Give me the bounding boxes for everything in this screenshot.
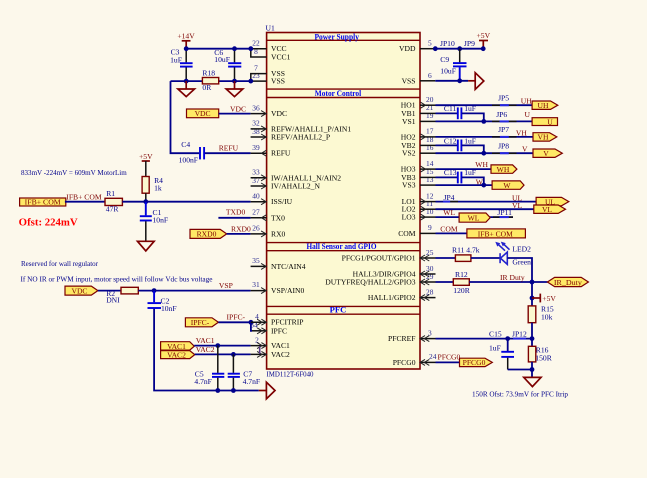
svg-text:TXD0: TXD0 [226,208,246,217]
svg-text:RXD0: RXD0 [197,230,217,239]
port WH flag [491,165,517,174]
port IFB+ COM rect right [467,229,526,238]
pin 39 stub [251,150,267,156]
pin 5 stub [420,48,435,50]
junction dot IR rail [530,280,535,285]
svg-text:Motor Control: Motor Control [315,88,362,98]
svg-text:U: U [547,117,553,126]
svg-text:39: 39 [252,143,260,152]
wire TXD0 to pin 27 [218,217,250,219]
svg-text:UH: UH [521,97,532,106]
svg-text:25: 25 [426,248,434,257]
wire VS3 row [436,184,493,186]
ground under C6 [226,81,243,97]
svg-text:26: 26 [252,224,260,233]
wire C4 to pin 39 REFU [205,152,251,154]
power +5V at R15 [530,294,557,303]
capacitor C3 [170,48,193,81]
pin 1 stub [251,351,267,357]
svg-text:1uF: 1uF [464,168,476,177]
op-amp U1 IMD112T-6F040 controller body [267,31,420,369]
wire COM row [436,232,467,234]
wire R1 to pin 40 [122,201,250,203]
wire VAC2 to pin 1 [195,353,251,355]
U1 right pin numbers [426,39,437,362]
wire R11 to LED2 [471,257,500,259]
capacitor C1 [140,202,168,242]
svg-text:W: W [503,181,511,190]
pin 3 stub [420,336,436,342]
net label IPFC- flag [185,318,218,327]
wire C11 to VS1 row [462,113,484,121]
svg-text:COM: COM [440,225,458,234]
junction dot VS1 [481,119,486,124]
svg-text:IR_Duty: IR_Duty [554,278,582,287]
svg-text:IPFC: IPFC [271,326,287,335]
junction dot VS2 [481,151,486,156]
svg-text:VH: VH [516,128,527,137]
svg-text:6: 6 [428,71,432,80]
svg-text:WL: WL [468,214,480,223]
pin 32 stub [251,126,267,132]
junction dot IPFC [249,320,254,325]
U1 left pin names [271,44,351,359]
wire HO2 row [436,136,534,138]
svg-text:833mV -224mV = 609mV MotorLim: 833mV -224mV = 609mV MotorLim [21,168,127,177]
svg-text:LO3: LO3 [402,213,416,222]
svg-text:TX0: TX0 [271,213,285,222]
pin 26 stub [251,231,267,237]
wire pin25 to R11 [436,257,456,259]
pin 35 stub NTC [251,263,267,269]
pin 34 stub [252,328,267,334]
wire VAC1 to pin 2 [194,345,250,347]
svg-text:R18: R18 [202,69,215,78]
svg-text:36: 36 [252,103,260,112]
svg-text:JP12: JP12 [512,330,527,339]
svg-text:V: V [522,145,528,154]
svg-text:C9: C9 [440,55,449,64]
LED LED2 [495,242,531,267]
svg-text:24: 24 [429,352,437,361]
wire R15 to pin3 row [531,323,533,347]
svg-text:VDC: VDC [195,109,211,118]
svg-text:23: 23 [252,71,260,80]
svg-text:35: 35 [252,256,260,265]
wire IFB to R1 [65,201,105,203]
svg-text:WL: WL [443,208,455,217]
pin 6 stub [420,80,435,82]
svg-text:JP4: JP4 [444,193,455,202]
resistor R2 [106,287,138,304]
svg-text:HALL1/GPIO2: HALL1/GPIO2 [368,293,416,302]
svg-text:JP11: JP11 [497,208,512,217]
capacitor C4 [179,140,205,165]
net label RXD0 flag [190,229,227,238]
pin 27 stub [251,215,267,221]
svg-text:JP6: JP6 [496,110,507,119]
junction dot VS3 [481,183,486,188]
pin 31 stub [251,288,267,294]
svg-text:VAC2: VAC2 [271,350,290,359]
svg-text:IR Duty: IR Duty [500,273,525,282]
resistor R11 [452,245,480,261]
svg-text:IMD112T-6F040: IMD112T-6F040 [267,369,314,378]
svg-text:DUTYFREQ/HALL2/GPIO3: DUTYFREQ/HALL2/GPIO3 [325,278,415,287]
svg-text:27: 27 [252,208,260,217]
svg-text:DNI: DNI [106,296,120,305]
svg-text:13: 13 [426,175,434,184]
pin 17 stub [420,134,436,140]
port PFCG0 flag [460,358,493,367]
port VH flag [533,133,557,142]
wire C2 down to bottom rail [154,309,259,391]
svg-text:UH: UH [538,101,549,110]
svg-text:VCC1: VCC1 [271,53,291,62]
svg-text:VAC2: VAC2 [167,351,186,360]
svg-text:10k: 10k [541,313,553,322]
svg-text:VH: VH [538,133,549,142]
wire VCC rail pin22 row [186,48,250,50]
junction dot R15 R16 node [530,336,535,341]
wire C13 to VS3 row [462,177,484,185]
wire VB3 to C13 [436,176,458,178]
svg-text:NTC/AIN4: NTC/AIN4 [271,262,306,271]
junction dot C15 top [505,336,510,341]
svg-text:IV/AHALL2_N: IV/AHALL2_N [271,182,320,191]
svg-text:40: 40 [252,191,260,200]
svg-text:R1: R1 [106,189,115,198]
port IR_Duty hexagon [547,277,588,286]
svg-text:1uF: 1uF [464,104,476,113]
wire R2 to pin 31 VSP [138,290,250,292]
pin link VAC1 VAC2 [259,346,261,353]
svg-text:10uF: 10uF [440,67,456,76]
svg-text:PFCREF: PFCREF [388,334,415,343]
svg-text:Hall Sensor and GPIO: Hall Sensor and GPIO [307,241,377,251]
svg-text:R11 4.7k: R11 4.7k [452,245,480,254]
svg-text:VSP/AIN0: VSP/AIN0 [271,286,305,295]
svg-text:VSS: VSS [402,77,416,86]
svg-text:VDC: VDC [271,109,287,118]
pin 14 stub [420,166,436,172]
svg-text:WH: WH [475,160,488,169]
svg-text:VDD: VDD [399,44,416,53]
capacitor C2 [148,291,177,313]
pin 29 stub [420,279,436,285]
pin 16 stub [420,152,436,154]
resistor R16 [528,346,552,363]
svg-text:+5V: +5V [542,294,556,303]
svg-text:JP10: JP10 [440,39,455,48]
directive triangle bottom rail [259,382,275,399]
svg-text:9: 9 [428,223,432,232]
pin 28 stub [420,295,436,301]
svg-text:10: 10 [426,207,434,216]
svg-text:0R: 0R [202,83,212,92]
pin 9 stub [420,232,436,234]
svg-text:150R Ofst: 73.9mV for PFC Itri: 150R Ofst: 73.9mV for PFC Itrip [472,389,568,398]
wire VSS rail pin23 row [171,80,251,82]
svg-text:1uF: 1uF [170,56,182,65]
wire VS1 row [436,120,533,122]
pin 25 stub [420,255,436,261]
svg-text:100nF: 100nF [179,155,198,164]
junction dots VCC rail [184,46,253,51]
junction node R1 R4 C1 [143,199,148,204]
wire VDC flag to R2 [98,290,121,292]
svg-text:29: 29 [426,272,434,281]
svg-text:VS2: VS2 [402,149,416,158]
resistor R15 [528,305,554,323]
svg-text:1uF: 1uF [489,343,501,352]
wire C15 bottom to ground node [508,369,532,371]
svg-text:Ofst: 224mV: Ofst: 224mV [19,217,78,228]
svg-text:VAC1: VAC1 [271,341,290,350]
pin 20 stub [420,102,436,108]
svg-text:U1: U1 [266,23,275,32]
power +14V [177,31,195,48]
pin 22 stub [251,48,267,50]
svg-text:IPFC-: IPFC- [191,318,210,327]
capacitor C6 [214,48,241,81]
svg-text:C12: C12 [444,137,457,146]
pin 13 stub [420,184,436,186]
wire VS2 row [436,152,534,154]
wire VB1 to C11 [436,112,458,114]
svg-text:REFU: REFU [219,143,239,152]
junction node VSP C2 [152,288,157,293]
svg-text:IFB+ COM: IFB+ COM [25,198,61,207]
svg-text:1uF: 1uF [464,137,476,146]
U1 right pin names [325,44,416,367]
svg-text:VL: VL [542,205,552,214]
pin 15 stub [420,176,436,178]
wire HO3 row [436,168,492,170]
net label VAC2 flag [161,351,195,360]
svg-text:4.7nF: 4.7nF [243,377,261,386]
wire VSS loop to C4 [171,81,200,153]
svg-text:R12: R12 [455,270,468,279]
jumper JP4 [443,193,458,202]
svg-text:PFCG1/PGOUT/GPIO1: PFCG1/PGOUT/GPIO1 [342,254,416,263]
svg-text:10uF: 10uF [214,55,230,64]
U1 left pin numbers [250,39,260,345]
pin 38 stub [251,134,267,140]
svg-text:120R: 120R [453,286,470,295]
svg-text:28: 28 [426,287,434,296]
pin 36 stub [251,111,267,117]
wire VDC to pin 36 [219,113,251,115]
svg-text:VS1: VS1 [402,117,416,126]
svg-text:RXD0: RXD0 [231,224,251,233]
ground under R16 [524,377,541,386]
junction dot C5 bottom [215,388,220,393]
resistor R18 [202,69,218,92]
resistor R4 [142,176,163,202]
capacitor C5 [194,346,224,391]
svg-text:+14V: +14V [177,31,195,40]
svg-text:IFB+ COM: IFB+ COM [478,229,513,238]
wire LO3 row [436,216,514,218]
wire IPFC branch down [251,322,252,331]
junction dot VAC1 C5 [215,343,220,348]
net label VAC1 flag [161,342,195,351]
wire IPFC- to pins 4 34 [218,321,251,323]
net label IFB+ COM rect left [20,198,66,207]
svg-text:W: W [476,177,484,186]
svg-text:C4: C4 [181,140,190,149]
pin 40 stub [251,199,267,205]
jumper JP6 [492,110,517,122]
svg-text:JP5: JP5 [498,93,509,102]
junction dot VAC2 C7 [231,352,236,357]
jumper JP5 [492,93,517,105]
resistor R12 [453,270,470,295]
svg-text:VL: VL [512,201,522,210]
svg-text:IFB+ COM: IFB+ COM [66,192,102,201]
pin 8 stub branch [251,49,267,57]
net label VDC rectangle [187,109,219,118]
svg-text:If NO IR or PWM input, motor s: If NO IR or PWM input, motor speed will … [21,274,214,283]
svg-text:VAC1: VAC1 [196,336,215,345]
svg-text:PFCG0: PFCG0 [393,358,416,367]
pin 33 stub [251,175,267,181]
svg-text:31: 31 [252,280,260,289]
jumper JP12 [512,330,527,339]
net label VDC flag [65,286,98,295]
pin 21 stub [420,112,436,114]
wire R12 to IR_Duty [469,281,547,283]
port WL flag [459,213,490,223]
pin 12 stub [420,199,436,205]
svg-text:10nF: 10nF [153,215,169,224]
junction dot ground node [530,367,535,372]
svg-text:150R: 150R [535,353,552,362]
junction dots VSS rail [184,79,253,84]
pin 23 stub [251,80,267,82]
svg-text:16: 16 [426,143,434,152]
svg-text:REFV/AHALL2_P: REFV/AHALL2_P [271,133,330,142]
port W flag [492,181,524,190]
port U rect [532,117,557,126]
capacitor C7 [228,354,260,390]
pin 7 stub branch [251,74,267,82]
svg-text:VSS: VSS [271,77,285,86]
svg-text:REFU: REFU [271,149,291,158]
pin 4 stub [251,319,267,325]
svg-text:PFCG0: PFCG0 [463,358,486,367]
svg-text:IPFC-: IPFC- [227,312,246,321]
svg-text:C15: C15 [489,330,502,339]
svg-text:VDC: VDC [71,286,87,295]
jumper JP11 [493,208,513,217]
pin 37 stub [251,183,267,189]
resistor R1 [105,189,122,214]
svg-text:19: 19 [426,111,434,120]
capacitor C13 [444,168,476,183]
svg-text:47R: 47R [106,205,120,214]
ground under C3 [178,81,195,97]
directive triangle pin6 [468,73,484,90]
svg-text:C11: C11 [444,104,457,113]
svg-text:VDC: VDC [230,104,246,113]
svg-text:V: V [543,149,549,158]
ground under C1 [138,241,155,251]
wire R16 to ground [531,362,533,378]
pin 11 stub [420,206,436,212]
svg-text:LED2: LED2 [512,245,531,254]
port V flag [533,149,562,158]
pin 18 stub [420,144,436,146]
wire LED2 to rail [507,258,532,306]
capacitor C11 [444,104,476,119]
svg-text:VS3: VS3 [402,181,416,190]
port VL flag [534,205,566,214]
svg-text:+5V: +5V [139,152,153,161]
capacitor C12 [444,137,476,152]
wire LO1 row [436,201,537,203]
svg-text:PFCG0: PFCG0 [438,353,461,362]
wire pin24 to PFCG0 [436,361,460,363]
svg-text:COM: COM [398,229,416,238]
junction dot C9 top [457,46,462,51]
svg-text:C13: C13 [444,168,457,177]
svg-text:VSP: VSP [219,281,233,290]
capacitor C9 [440,49,466,81]
wire LO2 row [436,208,534,210]
svg-text:Reserved for wall regulator: Reserved for wall regulator [21,259,98,268]
svg-text:Power Supply: Power Supply [314,31,359,41]
power +5V left [139,152,153,176]
svg-text:JP8: JP8 [498,141,509,150]
jumper JP7 [492,125,517,137]
wire RXD0 to pin 26 [227,233,251,235]
pin 19 stub [420,120,436,122]
pin 24 stub [420,359,436,365]
power +5V top right [477,31,491,51]
svg-text:WH: WH [497,165,510,174]
wire PFCREF row [436,338,533,340]
jumper JP8 [492,141,517,153]
wire VB2 to C12 [436,144,458,146]
pin 2 stub [251,343,267,349]
svg-text:4.7nF: 4.7nF [194,377,212,386]
svg-text:5: 5 [428,39,432,48]
port UL flag [536,197,569,206]
wire VDD row [435,48,483,50]
pin 30 stub [420,271,436,277]
svg-text:RX0: RX0 [271,229,286,238]
junction dot C9 bottom [457,78,462,83]
svg-text:ISS/IU: ISS/IU [271,197,293,206]
svg-text:PFC: PFC [330,305,347,315]
wire pin29 to R12 [436,281,454,283]
port UH flag [532,101,558,110]
svg-text:10nF: 10nF [161,304,177,313]
junction dot C7 bottom [231,388,236,393]
svg-text:U: U [525,110,531,119]
svg-text:+5V: +5V [477,31,491,40]
svg-text:JP7: JP7 [498,125,509,134]
wire C12 to VS2 row [462,145,484,153]
wire HO1 row [436,104,533,106]
wire VSS row right [435,80,468,82]
capacitor C15 [489,330,514,370]
svg-text:1k: 1k [154,184,162,193]
pin 10 stub [420,214,436,220]
svg-text:JP9: JP9 [464,39,475,48]
